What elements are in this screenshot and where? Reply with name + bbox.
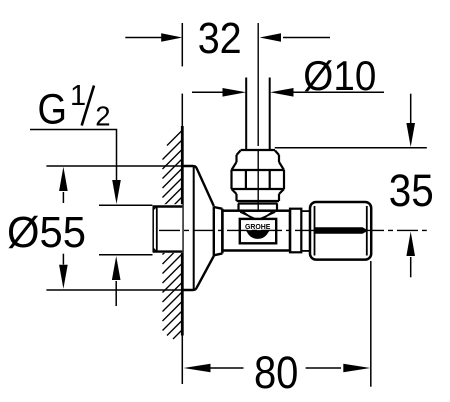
svg-text:Ø10: Ø10 bbox=[303, 52, 376, 99]
valve seat V funnel bbox=[240, 212, 275, 220]
wall extension line lower bbox=[181, 336, 183, 385]
valve body bbox=[222, 211, 290, 251]
wall extension line upper bbox=[181, 23, 183, 126]
knob grip slot bbox=[314, 227, 368, 234]
dimension 35 arrows bbox=[406, 94, 415, 278]
wall line bbox=[181, 126, 184, 336]
wall hatching bbox=[163, 131, 182, 339]
dimension diameter 55 arrows bbox=[59, 167, 68, 289]
threaded connector G1/2 bbox=[153, 206, 182, 253]
GROHE logo plate bbox=[240, 219, 276, 243]
dimension 35 top extension line bbox=[275, 147, 427, 149]
svg-text:G: G bbox=[38, 86, 68, 133]
flange escutcheon bbox=[182, 166, 222, 290]
dimension diameter 10 bbox=[192, 88, 384, 97]
dimension 32 line bbox=[125, 33, 330, 42]
svg-text:GROHE: GROHE bbox=[245, 222, 271, 231]
knob bbox=[310, 202, 371, 260]
thread body white fill bbox=[152, 204, 182, 253]
GROHE laurel emblem bbox=[246, 230, 270, 239]
svg-text:1: 1 bbox=[70, 80, 86, 112]
svg-text:35: 35 bbox=[389, 165, 434, 216]
knob inner edge lines bbox=[315, 206, 367, 256]
G 1/2 leader line bbox=[30, 130, 121, 307]
dimension diameter 55 extension lines bbox=[46, 166, 195, 290]
dimension 80 line bbox=[184, 364, 371, 373]
knob stem bbox=[301, 211, 310, 251]
svg-text:Ø55: Ø55 bbox=[7, 208, 86, 257]
svg-text:32: 32 bbox=[198, 14, 242, 63]
svg-text:80: 80 bbox=[254, 347, 299, 398]
body right ring bbox=[290, 209, 301, 253]
G 1/2 extension lines bbox=[99, 205, 155, 255]
compression nut bbox=[232, 150, 285, 211]
svg-text:2: 2 bbox=[95, 101, 110, 132]
pipe bbox=[246, 78, 270, 151]
pipe centerline bbox=[257, 23, 259, 212]
dimension 80 right extension line bbox=[370, 261, 372, 387]
valve horizontal centerline bbox=[159, 229, 427, 231]
